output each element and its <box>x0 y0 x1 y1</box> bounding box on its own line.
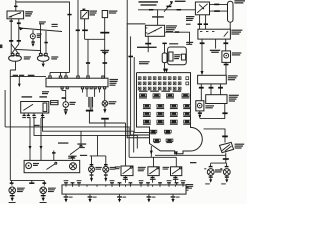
text TO INSTRUMENT <box>152 16 164 17</box>
marker lamp 2 <box>223 169 230 176</box>
door jamb switch 1 <box>121 166 133 176</box>
horn relay K1 <box>7 11 24 19</box>
connector bar C220 <box>89 97 93 107</box>
blower motor M2 <box>222 51 231 63</box>
courtesy lamp bus <box>90 155 106 157</box>
wiper switch SW2 <box>21 102 49 114</box>
polarity marks <box>204 168 206 169</box>
horn label <box>37 33 42 34</box>
fuse block right column fuses <box>186 77 189 80</box>
G2 ground <box>104 106 106 109</box>
door jamb switch 2 <box>148 167 159 176</box>
fuse link label bar on feed wire <box>14 6 17 8</box>
diode assembly D1 <box>220 142 234 152</box>
wire drop to oval pin (with horn label above) <box>40 24 42 53</box>
dome lamp DL <box>70 163 77 170</box>
wire labels above row <box>13 75 18 76</box>
courtesy lamp 2 <box>105 156 107 167</box>
wiper motor feed wires <box>29 118 31 160</box>
vacuum motor M3 <box>196 101 204 111</box>
blower box wires down <box>201 39 203 71</box>
wire below bulkhead to lighter <box>62 89 66 102</box>
junction wire <box>85 38 105 40</box>
marker lamp 1 <box>207 169 214 176</box>
ignition switch box SW1 <box>81 11 89 19</box>
dimmer feed wire <box>80 131 82 146</box>
wire link to right connector <box>16 50 41 54</box>
pin feed rail above connector <box>50 71 70 73</box>
connector C2 oval right <box>37 55 49 61</box>
relay wires down <box>200 84 202 101</box>
band line L3 <box>34 118 137 149</box>
heater control box <box>168 47 187 65</box>
strip inner pins <box>65 185 67 187</box>
park lamp 1 <box>9 187 16 194</box>
bulkhead top pins <box>49 76 51 78</box>
lamps label <box>215 169 223 170</box>
interior label <box>33 163 39 164</box>
park switch diagonal <box>47 164 56 170</box>
door jamb switch 3 <box>171 167 182 176</box>
dome lamp label <box>68 156 76 157</box>
wire from big box bottom <box>131 36 150 135</box>
blower switch box <box>198 29 231 39</box>
crossing wires into connector C1 <box>11 44 19 54</box>
relay U2 label <box>109 11 118 12</box>
fuse block feed to diode <box>204 129 226 143</box>
bulkhead bottom pins <box>61 87 63 89</box>
bulkhead label <box>110 79 119 80</box>
horn label 2 <box>52 24 58 25</box>
washer capsule W1 <box>162 53 167 63</box>
lighter ground <box>65 107 67 110</box>
ECM big box outline <box>127 24 149 138</box>
text row 2 left <box>22 96 33 97</box>
strip bottom grounds <box>65 194 67 196</box>
lighter label <box>70 102 76 103</box>
top mid text rows <box>139 1 159 3</box>
horn label <box>39 21 46 22</box>
splice blob S1 <box>101 50 110 51</box>
branch arrow below row <box>18 77 20 84</box>
left page edge mark <box>0 45 2 49</box>
high blower relay <box>198 75 227 84</box>
wire relay pin B down <box>18 19 20 44</box>
wire into ECM relay <box>157 10 159 25</box>
legend text <box>186 184 193 185</box>
fuse block small fuse grid <box>138 77 141 80</box>
fuse block lower fuses <box>150 130 157 133</box>
wire SW1 down <box>84 19 86 40</box>
wire U3 down <box>147 36 149 52</box>
lamp grounds <box>210 175 212 176</box>
wire drop to horn <box>32 30 34 34</box>
nested wire 3 <box>134 57 149 132</box>
wire row to bulkhead <box>10 76 46 78</box>
text left of bus <box>80 155 87 156</box>
CB1 wire down <box>229 22 231 29</box>
wire relay to heater feed <box>165 32 190 44</box>
resistor wire down <box>224 104 226 119</box>
wiper motor assembly M1 <box>24 160 80 172</box>
dimmer switch <box>70 147 81 155</box>
headlamp switch SW3 <box>195 2 209 15</box>
lamp grounds to strip <box>91 172 93 174</box>
text left of bus <box>190 162 196 163</box>
wire relay pin A down <box>10 19 12 54</box>
bulkhead connector C100 <box>46 78 108 87</box>
text below bulkhead <box>42 91 49 92</box>
wire horn feed slant <box>20 28 63 32</box>
wire U2 down <box>104 18 106 78</box>
U3 label <box>166 25 177 26</box>
gauge circle right G2 <box>102 101 108 107</box>
horn ground arrow <box>31 43 34 46</box>
motor circle <box>26 163 32 169</box>
bottom left lamp bus <box>10 179 44 181</box>
IP label <box>34 125 40 126</box>
courtesy lamp 1 <box>91 156 93 167</box>
horn H1 <box>30 34 35 39</box>
marker lamp bus <box>211 162 227 164</box>
TO INSTRUMENT PANEL text <box>137 47 157 48</box>
relay box U2 <box>102 11 107 18</box>
horn relay label <box>25 11 33 12</box>
fuse block outline <box>137 73 203 154</box>
G2 label <box>109 101 117 102</box>
wire from C1 down and left <box>10 61 15 70</box>
marker lamp ground labels <box>205 183 210 184</box>
cigar lighter L1 <box>63 102 69 108</box>
ground arrow below C2 <box>42 61 44 63</box>
wire drop to bulkhead pin <box>87 39 89 76</box>
band line L2 <box>43 116 134 152</box>
wiper switch pins <box>24 113 42 115</box>
M3 wire down <box>199 111 201 115</box>
wires right of SW3 <box>210 3 228 5</box>
fuse block labeled fuse rows <box>140 94 147 97</box>
ECM relay U3 <box>145 25 164 36</box>
label bar on vertical 69.5 <box>67 14 71 16</box>
pin labels <box>22 117 26 118</box>
strip top pin ticks <box>65 183 67 185</box>
left wire to band <box>4 90 6 127</box>
wire top bus to center <box>16 2 70 72</box>
fuse grid row3 labels <box>139 91 148 92</box>
wire drop from slant to oval <box>45 31 47 54</box>
SW3 wires down <box>199 15 201 29</box>
blower resistor <box>206 95 227 104</box>
wire capsule to fuse block <box>164 63 166 69</box>
park lamp 2 <box>40 187 47 194</box>
M2 wire down <box>225 62 227 75</box>
wire into ECM area from top <box>126 0 128 24</box>
connector table label C210 <box>51 101 58 105</box>
bottom connector strip <box>62 185 186 194</box>
wires below C220 <box>90 107 92 109</box>
arrow diagonal to instrument <box>164 3 172 12</box>
top feed line <box>138 9 195 11</box>
wire diode down <box>225 153 227 164</box>
wire from top bus 78 <box>77 0 79 76</box>
long left harness wire <box>9 70 11 180</box>
switch SW1 label <box>89 11 97 12</box>
connector C1 oval left <box>9 55 22 61</box>
horn ground wire <box>32 39 34 43</box>
junction line <box>200 118 225 120</box>
connector C1 label <box>24 56 31 57</box>
wire feed to horn relay <box>15 0 17 11</box>
strip end tabs <box>186 187 189 190</box>
circuit breaker CB1 <box>228 1 234 22</box>
washer label <box>139 61 150 62</box>
connector C2 label <box>51 56 58 57</box>
left texts <box>186 16 194 17</box>
wire arrow into block top <box>165 69 168 73</box>
bottom bus from block <box>150 146 152 157</box>
band line L1 <box>5 127 129 157</box>
